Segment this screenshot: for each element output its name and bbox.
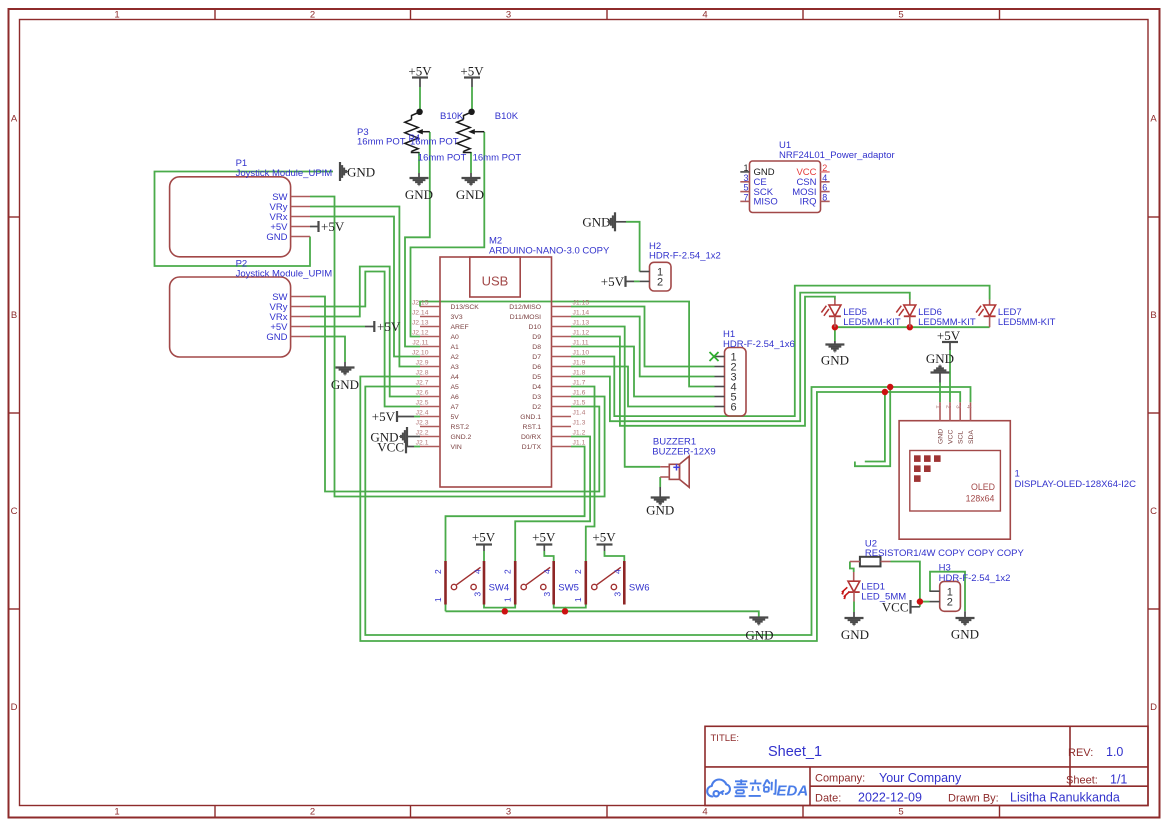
svg-text:D11/MOSI: D11/MOSI xyxy=(510,314,541,321)
wire SW4 pin1 drop xyxy=(445,605,447,612)
led LED5 xyxy=(821,300,901,328)
wire switch ground rail xyxy=(446,611,759,617)
svg-text:8: 8 xyxy=(822,192,827,202)
ground H3 xyxy=(951,611,979,641)
svg-text:3: 3 xyxy=(955,405,962,409)
svg-text:4: 4 xyxy=(702,10,707,21)
svg-text:J1.1: J1.1 xyxy=(573,440,586,447)
wire P2.VRx to J2.6 A6 over-loop xyxy=(310,267,420,397)
wire J1.7 to SW6 pin2 xyxy=(571,387,595,562)
svg-text:3: 3 xyxy=(613,592,623,597)
ground J2.2 xyxy=(370,427,420,446)
led LED7 xyxy=(976,300,1056,328)
svg-text:RST.2: RST.2 xyxy=(451,424,470,431)
svg-text:+5V: +5V xyxy=(408,64,432,79)
wire J1.10 to LED7 xyxy=(571,286,990,417)
wire SW5 pin1 jog xyxy=(505,605,515,608)
svg-text:A2: A2 xyxy=(451,354,460,361)
wire OLED VCC +5V xyxy=(949,350,951,402)
node pot1 top junction xyxy=(416,109,422,115)
node LED6 cathode junction xyxy=(907,324,913,330)
wire SW6 pin1 jog xyxy=(565,605,586,608)
svg-text:RST.1: RST.1 xyxy=(522,424,541,431)
svg-text:EDA: EDA xyxy=(777,783,809,800)
svg-text:J1.9: J1.9 xyxy=(573,360,586,367)
svg-text:5: 5 xyxy=(898,807,903,818)
svg-text:LED5MM-KIT: LED5MM-KIT xyxy=(843,317,901,328)
power VCC J2.1 xyxy=(377,439,414,454)
svg-text:1: 1 xyxy=(503,597,513,602)
svg-text:4: 4 xyxy=(472,569,482,574)
wire pot2 wiper to J2.12 A0 xyxy=(411,132,485,337)
svg-text:HDR-F-2.54_1x2: HDR-F-2.54_1x2 xyxy=(649,251,721,262)
svg-text:GND: GND xyxy=(745,628,773,643)
svg-text:J2.7: J2.7 xyxy=(416,380,429,387)
svg-text:J1.12: J1.12 xyxy=(573,330,590,337)
wire SW4 +5V drop xyxy=(483,551,485,561)
wire P2.+5V xyxy=(310,326,365,328)
header H1 xyxy=(715,329,795,416)
svg-text:J1.14: J1.14 xyxy=(573,310,590,317)
node LED5 cathode junction xyxy=(832,324,838,330)
svg-text:2: 2 xyxy=(433,569,443,574)
svg-text:Date:: Date: xyxy=(815,793,841,805)
svg-text:HDR-F-2.54_1x2: HDR-F-2.54_1x2 xyxy=(939,573,1011,584)
svg-text:D7: D7 xyxy=(532,354,541,361)
wire J2.7 A5 to OLED SDA via bottom rail xyxy=(365,387,970,636)
ground switch rail xyxy=(745,618,773,643)
ground P2 net xyxy=(331,362,359,392)
svg-text:RESISTOR1/4W COPY COPY COPY: RESISTOR1/4W COPY COPY COPY xyxy=(865,548,1025,559)
svg-text:LED5MM-KIT: LED5MM-KIT xyxy=(998,317,1056,328)
svg-text:GND: GND xyxy=(266,232,287,243)
svg-text:D9: D9 xyxy=(532,334,541,341)
svg-text:1: 1 xyxy=(743,163,748,173)
power +5V P1 xyxy=(310,219,345,234)
svg-text:2: 2 xyxy=(310,807,315,818)
oled display 1 xyxy=(899,402,1136,539)
svg-text:+5V: +5V xyxy=(472,530,496,545)
wire stub hook near OLED 1 xyxy=(855,387,890,466)
svg-text:LED5MM-KIT: LED5MM-KIT xyxy=(918,317,976,328)
potentiometer P3 xyxy=(357,112,459,153)
svg-text:6: 6 xyxy=(731,402,737,414)
svg-text:1: 1 xyxy=(114,807,119,818)
svg-text:SDA: SDA xyxy=(968,430,975,444)
wire J1.15 to H1 pin2 xyxy=(571,307,715,367)
svg-text:HDR-F-2.54_1x6: HDR-F-2.54_1x6 xyxy=(723,339,795,350)
svg-text:D10: D10 xyxy=(529,324,542,331)
ground LED5 net xyxy=(821,341,849,368)
svg-text:VCC: VCC xyxy=(882,600,909,615)
svg-text:2022-12-09: 2022-12-09 xyxy=(858,791,922,805)
svg-text:Drawn By:: Drawn By: xyxy=(948,793,999,805)
svg-text:B: B xyxy=(1150,310,1156,321)
svg-text:2: 2 xyxy=(310,10,315,21)
svg-text:REV:: REV: xyxy=(1068,747,1093,759)
power +5V OLED xyxy=(937,328,961,350)
svg-text:J1.15: J1.15 xyxy=(573,300,590,307)
node SW rail junction 2 xyxy=(562,608,568,614)
svg-text:D4: D4 xyxy=(532,384,541,391)
svg-text:J2.9: J2.9 xyxy=(416,360,429,367)
wire stub hook near OLED 2 xyxy=(865,392,885,462)
svg-text:1: 1 xyxy=(433,597,443,602)
svg-text:3: 3 xyxy=(542,592,552,597)
svg-text:A4: A4 xyxy=(451,374,460,381)
led LED6 xyxy=(896,300,976,328)
wire J1.12 to LED5 xyxy=(571,297,835,426)
svg-text:16mm POT: 16mm POT xyxy=(357,137,406,148)
svg-text:AREF: AREF xyxy=(451,324,469,331)
svg-text:A6: A6 xyxy=(451,394,460,401)
svg-text:J1.5: J1.5 xyxy=(573,400,586,407)
wire OLED GND xyxy=(939,383,941,403)
svg-text:GND: GND xyxy=(646,503,674,518)
svg-text:D13/SCK: D13/SCK xyxy=(451,304,480,311)
wire J2.15 D13 to H1 pin4 long net xyxy=(420,302,715,387)
svg-text:Sheet_1: Sheet_1 xyxy=(768,744,822,760)
svg-text:3: 3 xyxy=(743,173,748,183)
svg-text:1/1: 1/1 xyxy=(1110,773,1127,787)
svg-text:GND: GND xyxy=(926,351,954,366)
svg-text:J1.8: J1.8 xyxy=(573,370,586,377)
svg-text:OLED: OLED xyxy=(971,482,995,492)
svg-text:D0/RX: D0/RX xyxy=(521,434,541,441)
wire LED5 gnd drop xyxy=(834,327,836,341)
svg-text:J2.3: J2.3 xyxy=(416,420,429,427)
arduino left pins J2 xyxy=(420,307,440,447)
svg-text:D6: D6 xyxy=(532,364,541,371)
svg-text:A: A xyxy=(1150,114,1157,125)
svg-text:7: 7 xyxy=(743,192,748,202)
wire J1.8 to LED6 xyxy=(571,293,910,422)
wire LED1 cathode to GND xyxy=(853,602,855,613)
svg-text:A0: A0 xyxy=(451,334,460,341)
wire pot2 +5V xyxy=(471,87,473,112)
wire pot1 gnd xyxy=(418,152,420,173)
svg-text:D5: D5 xyxy=(532,374,541,381)
svg-text:16mm POT: 16mm POT xyxy=(473,153,522,164)
power +5V SW6 xyxy=(592,530,616,552)
potentiometer P4 xyxy=(418,111,522,164)
svg-text:B10K: B10K xyxy=(440,111,464,122)
wire U2 to VCC junction xyxy=(891,562,920,607)
no-connect flag H1 pin1 xyxy=(710,352,719,361)
wire J1.1 to SW4 pin2 xyxy=(446,447,585,562)
wire buzzer pin2 to GND xyxy=(659,477,661,487)
svg-text:GND: GND xyxy=(456,187,484,202)
svg-text:+5V: +5V xyxy=(372,409,396,424)
svg-text:+5V: +5V xyxy=(321,219,345,234)
node VCC junction xyxy=(917,598,923,604)
svg-text:+5V: +5V xyxy=(532,530,556,545)
wire P2.VRy to J2.5 A7 xyxy=(310,272,420,407)
svg-text:GND: GND xyxy=(405,187,433,202)
svg-text:GND.2: GND.2 xyxy=(451,434,472,441)
svg-text:4: 4 xyxy=(965,405,972,409)
switch SW6 xyxy=(573,561,649,605)
svg-text:A1: A1 xyxy=(451,344,460,351)
svg-text:H3: H3 xyxy=(939,563,951,574)
svg-text:J2.10: J2.10 xyxy=(412,350,429,357)
buzzer BUZZER1 xyxy=(652,437,715,488)
JLCEDA logo xyxy=(707,780,730,797)
wire H3 pin1 to GND xyxy=(930,572,965,612)
wire P2.GND xyxy=(310,337,345,363)
svg-text:4: 4 xyxy=(822,173,827,183)
svg-text:C: C xyxy=(11,506,18,517)
svg-text:16mm POT: 16mm POT xyxy=(418,153,467,164)
svg-text:A: A xyxy=(11,114,18,125)
svg-text:D2: D2 xyxy=(532,404,541,411)
svg-text:GND: GND xyxy=(266,332,287,343)
node SDA junction xyxy=(887,384,893,390)
svg-text:J2.14: J2.14 xyxy=(412,310,429,317)
wire P1.GND loop to GND symbol xyxy=(155,172,334,267)
svg-text:Your Company: Your Company xyxy=(879,771,962,785)
power +5V P2 xyxy=(365,319,401,334)
wire P1.VRx to J2.10 A2 xyxy=(310,217,420,357)
ground H2 net xyxy=(582,212,626,231)
svg-text:B10K: B10K xyxy=(495,111,519,122)
svg-text:J1.2: J1.2 xyxy=(573,430,586,437)
svg-text:D8: D8 xyxy=(532,344,541,351)
svg-text:J1.10: J1.10 xyxy=(573,350,590,357)
svg-text:GND: GND xyxy=(331,377,359,392)
svg-text:3V3: 3V3 xyxy=(451,314,463,321)
wire P2.SW to J1.5 xyxy=(310,297,599,492)
svg-text:J2.15: J2.15 xyxy=(412,300,429,307)
wire J1.11 to H1 pin5 xyxy=(571,347,715,397)
svg-text:+5V: +5V xyxy=(601,274,625,289)
svg-text:J1.6: J1.6 xyxy=(573,390,586,397)
power +5V H2 xyxy=(601,274,634,289)
svg-text:J2.2: J2.2 xyxy=(416,430,429,437)
svg-text:IRQ: IRQ xyxy=(800,197,817,208)
resistor U2 xyxy=(850,539,891,567)
svg-text:1: 1 xyxy=(935,405,942,409)
svg-text:Joystick Module_UPIM: Joystick Module_UPIM xyxy=(236,268,333,279)
node SCL junction xyxy=(882,389,888,395)
svg-text:A7: A7 xyxy=(451,404,460,411)
ground buzzer xyxy=(646,487,674,518)
svg-text:1: 1 xyxy=(1015,469,1020,480)
wire J1.2 to SW5 pin2 xyxy=(515,437,590,562)
svg-text:3: 3 xyxy=(472,592,482,597)
svg-text:A3: A3 xyxy=(451,364,460,371)
svg-text:D1/TX: D1/TX xyxy=(522,444,542,451)
wire VCC junction to H3 pin2 xyxy=(920,601,930,603)
wire SW4 pin3 jog xyxy=(484,605,505,612)
joystick P2 xyxy=(170,258,333,357)
wire J2.4 +5V tail xyxy=(414,416,420,418)
node pot2 top junction xyxy=(468,109,474,115)
svg-text:C: C xyxy=(1150,506,1157,517)
ground OLED net xyxy=(926,351,954,383)
svg-text:4: 4 xyxy=(702,807,707,818)
header H3 xyxy=(929,563,1010,612)
wire J2.8 A4 to OLED SCL via bottom rail xyxy=(360,377,960,642)
svg-text:GND: GND xyxy=(951,627,979,642)
svg-text:2: 2 xyxy=(945,405,952,409)
svg-text:J1.11: J1.11 xyxy=(573,340,589,347)
svg-text:SCL: SCL xyxy=(958,431,965,444)
wire pot1 wiper to J2.11 A1 xyxy=(405,132,430,347)
svg-text:D12/MISO: D12/MISO xyxy=(509,304,541,311)
power +5V SW4 xyxy=(472,530,496,552)
svg-text:GND: GND xyxy=(938,429,945,444)
svg-text:DISPLAY-OLED-128X64-I2C: DISPLAY-OLED-128X64-I2C xyxy=(1015,479,1137,490)
svg-text:J1.3: J1.3 xyxy=(573,420,586,427)
svg-text:2: 2 xyxy=(573,569,583,574)
ground LED1 xyxy=(841,612,869,642)
svg-text:SW5: SW5 xyxy=(558,583,579,594)
svg-text:J1.7: J1.7 xyxy=(573,380,586,387)
svg-text:+5V: +5V xyxy=(460,64,484,79)
svg-text:ARDUINO-NANO-3.0 COPY: ARDUINO-NANO-3.0 COPY xyxy=(489,245,610,256)
svg-text:GND: GND xyxy=(347,164,375,179)
svg-text:VIN: VIN xyxy=(451,444,462,451)
svg-text:5: 5 xyxy=(898,10,903,21)
svg-text:D: D xyxy=(1150,702,1157,713)
svg-text:Joystick Module_UPIM: Joystick Module_UPIM xyxy=(236,168,333,179)
wire pot2 gnd xyxy=(470,152,472,173)
svg-text:6: 6 xyxy=(822,183,827,193)
svg-text:J2.12: J2.12 xyxy=(412,330,429,337)
switch SW4 xyxy=(433,561,509,605)
svg-text:VCC: VCC xyxy=(948,430,955,444)
svg-text:5V: 5V xyxy=(451,414,460,421)
svg-text:A5: A5 xyxy=(451,384,460,391)
svg-text:GND.1: GND.1 xyxy=(520,414,541,421)
svg-text:B: B xyxy=(11,310,17,321)
svg-text:D3: D3 xyxy=(532,394,541,401)
arduino nano M2 xyxy=(440,236,610,488)
wire U2 to LED1 anode xyxy=(850,562,854,573)
power VCC H3 net xyxy=(882,600,920,615)
wire J1.9 to H1 pin6 xyxy=(571,367,715,407)
svg-text:BUZZER-12X9: BUZZER-12X9 xyxy=(652,447,715,458)
svg-text:4: 4 xyxy=(542,569,552,574)
svg-text:+5V: +5V xyxy=(377,319,401,334)
svg-text:J2.6: J2.6 xyxy=(416,390,429,397)
wire SW5 pin3 jog xyxy=(554,605,565,612)
svg-text:+5V: +5V xyxy=(937,328,961,343)
svg-text:+5V: +5V xyxy=(592,530,616,545)
wire P1.SW to J1.6 xyxy=(310,197,605,497)
svg-text:2: 2 xyxy=(822,163,827,173)
node SW rail junction 1 xyxy=(502,608,508,614)
switch SW5 xyxy=(503,561,579,605)
joystick P1 xyxy=(170,158,333,257)
svg-text:J2.13: J2.13 xyxy=(412,320,429,327)
svg-text:GND: GND xyxy=(821,353,849,368)
svg-text:GND: GND xyxy=(841,627,869,642)
svg-text:2: 2 xyxy=(947,597,953,609)
ground pot2 xyxy=(456,173,484,202)
led LED1 xyxy=(841,572,906,602)
wire P1.VRy to J2.9 A3 xyxy=(310,207,420,367)
power +5V pot1 xyxy=(408,64,432,88)
svg-text:J1.4: J1.4 xyxy=(573,410,586,417)
svg-text:USB: USB xyxy=(482,274,509,289)
svg-text:D: D xyxy=(11,702,18,713)
svg-text:2: 2 xyxy=(503,569,513,574)
svg-text:GND: GND xyxy=(582,215,610,230)
svg-text:J2.1: J2.1 xyxy=(416,440,429,447)
header H2 xyxy=(640,241,721,291)
svg-text:3: 3 xyxy=(506,807,511,818)
svg-text:J2.11: J2.11 xyxy=(412,340,428,347)
svg-text:Lisitha Ranukkanda: Lisitha Ranukkanda xyxy=(1010,791,1120,805)
svg-text:NRF24L01_Power_adaptor: NRF24L01_Power_adaptor xyxy=(779,150,895,161)
wire LED cathode rail xyxy=(835,326,990,328)
power +5V J2.4 xyxy=(372,409,414,424)
power +5V pot2 xyxy=(460,64,484,88)
title block xyxy=(705,726,1148,805)
wire H2 pin2 +5V xyxy=(634,280,640,282)
svg-text:1.0: 1.0 xyxy=(1106,745,1123,759)
svg-text:Sheet:: Sheet: xyxy=(1066,775,1098,787)
svg-text:SW4: SW4 xyxy=(489,583,510,594)
svg-text:J2.8: J2.8 xyxy=(416,370,429,377)
wire pot1 +5V xyxy=(419,87,421,112)
svg-text:3: 3 xyxy=(506,10,511,21)
wire SW6 +5V drop xyxy=(605,551,625,561)
svg-text:5: 5 xyxy=(743,183,748,193)
svg-text:16mm POT: 16mm POT xyxy=(410,137,459,148)
svg-text:1: 1 xyxy=(573,597,583,602)
svg-text:MISO: MISO xyxy=(754,197,778,208)
ground pot1 xyxy=(405,173,433,202)
junction dots xyxy=(502,324,924,615)
svg-text:VCC: VCC xyxy=(377,439,404,454)
svg-text:SW6: SW6 xyxy=(629,583,650,594)
svg-text:J2.5: J2.5 xyxy=(416,400,429,407)
svg-text:Company:: Company: xyxy=(815,773,865,785)
svg-text:1: 1 xyxy=(114,10,119,21)
svg-text:J1.13: J1.13 xyxy=(573,320,590,327)
wire J1.14 to H1 pin3 xyxy=(571,317,715,377)
wire SW5 +5V drop xyxy=(544,551,553,561)
power +5V SW5 xyxy=(532,530,556,552)
wire J2.1 VCC tail xyxy=(414,446,420,448)
nrf24l01 adaptor U1 xyxy=(740,140,894,212)
arduino right pins J1 xyxy=(552,307,572,447)
svg-text:128x64: 128x64 xyxy=(966,494,995,504)
wire H2 pin1 to GND xyxy=(626,222,640,272)
svg-text:J2.4: J2.4 xyxy=(416,410,429,417)
svg-text:4: 4 xyxy=(613,569,623,574)
wire J1.13 to buzzer xyxy=(571,327,660,467)
svg-text:2: 2 xyxy=(657,277,663,289)
svg-text:TITLE:: TITLE: xyxy=(711,733,740,744)
ground P1 net xyxy=(340,162,375,181)
